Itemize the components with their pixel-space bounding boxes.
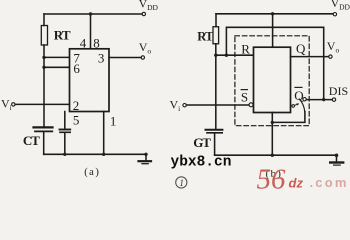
wire: rail to RT (b) xyxy=(215,14,217,27)
junction: discharge feedback tap xyxy=(225,54,228,57)
capacitor GT plates xyxy=(206,129,223,131)
wire: pin5 capacitor to ground bus xyxy=(64,133,66,154)
wire: RT down through node to capacitor GT xyxy=(215,44,217,129)
op-amp/timer IC U1 (555) body xyxy=(70,49,110,112)
discharge switch lever xyxy=(299,99,305,112)
ground symbol (a) xyxy=(144,153,147,156)
svg-text:VDD: VDD xyxy=(331,0,350,11)
svg-text:Q: Q xyxy=(296,41,306,56)
dashed IC boundary box xyxy=(235,36,309,126)
svg-text:2: 2 xyxy=(73,98,80,113)
wire: GT to ground bus xyxy=(214,134,216,156)
svg-text:ybx8.cn: ybx8.cn xyxy=(171,155,232,171)
svg-text:4: 4 xyxy=(80,35,87,50)
output terminal Vo (b) xyxy=(329,55,332,58)
svg-text:5: 5 xyxy=(73,112,80,127)
wire: top rail circuit a xyxy=(44,13,142,15)
discharge switch fixed contact circle xyxy=(303,98,306,101)
wire: pin 1 to ground bus xyxy=(103,112,105,155)
wire: node to R input of flip-flop xyxy=(216,54,254,56)
junction: VDD rail to flip-flop top xyxy=(271,12,274,15)
wire: VDD drop to pins 4,8 xyxy=(90,14,92,49)
wire: RT bottom down through node A to capacitor CT xyxy=(43,45,45,127)
wire: switch to DIS terminal xyxy=(306,99,332,101)
svg-text:.com: .com xyxy=(310,175,349,190)
inversion bubble on S input xyxy=(249,103,253,107)
svg-text:56: 56 xyxy=(257,164,287,194)
svg-text:1: 1 xyxy=(179,179,184,189)
wire: VDD drop to flip-flop xyxy=(272,14,274,47)
power terminal VDD (a) xyxy=(142,12,145,15)
junction: VDD rail to pin4/8 xyxy=(89,12,92,15)
svg-text:dz: dz xyxy=(289,176,304,191)
junction: node to R input xyxy=(214,54,217,57)
flip-flop U body xyxy=(254,47,291,112)
wire: VDD rail to resistor RT (a) xyxy=(43,14,45,26)
wire: discharge feedback path around top xyxy=(226,27,323,99)
watermark circled 1 xyxy=(176,177,187,188)
svg-text:6: 6 xyxy=(73,61,80,76)
junction: feedback joins DIS wire xyxy=(322,98,325,101)
junction: switch branch on FF ground line xyxy=(271,121,274,124)
wire: top rail circuit b xyxy=(216,13,333,15)
svg-text:S: S xyxy=(241,90,248,105)
junction: FF ground on ground bus xyxy=(271,154,274,157)
capacitor C on pin 5 plates xyxy=(60,129,71,131)
power terminal VDD (b) xyxy=(333,13,336,16)
wire: node A to pin 7 xyxy=(44,56,70,58)
junction: node A to pin 6 xyxy=(42,66,45,69)
terminal DIS xyxy=(332,98,335,101)
wire: Q output to Vo xyxy=(291,56,329,58)
svg-text:GT: GT xyxy=(193,135,211,150)
svg-text:3: 3 xyxy=(98,51,105,66)
svg-text:RT: RT xyxy=(197,30,214,44)
svg-text:RT: RT xyxy=(54,28,71,43)
resistor RT (b) xyxy=(213,27,219,44)
junction: pin1 on ground bus xyxy=(102,153,105,156)
svg-text:DIS: DIS xyxy=(329,84,348,98)
svg-text:Q: Q xyxy=(294,88,304,103)
wire: Vi to S bubble xyxy=(186,104,249,106)
wire: ground bus (b) xyxy=(215,154,337,156)
input terminal Vi (a) xyxy=(12,103,15,106)
wire: switch to ground branch xyxy=(272,112,305,123)
wire: Vi to pin 2 xyxy=(15,103,69,105)
resistor RT (a) xyxy=(41,26,47,46)
svg-text:R: R xyxy=(241,41,250,56)
wire: ground bus (a) xyxy=(44,153,146,155)
wire: node A to pin 6 xyxy=(44,66,70,68)
wire: pin 5 stub xyxy=(64,112,66,129)
wire: pin 3 to output terminal xyxy=(109,57,141,59)
wire: flip-flop ground xyxy=(271,113,273,156)
wire: CT to ground bus xyxy=(43,132,45,154)
input terminal Vi (b) xyxy=(183,104,186,107)
junction: node A to pin 7 xyxy=(42,56,45,59)
inversion bubble on Q-bar drive xyxy=(292,105,295,108)
output terminal Vo (a) xyxy=(141,56,144,59)
ground symbol (b) xyxy=(335,154,339,158)
svg-text:CT: CT xyxy=(23,133,40,148)
svg-text:8: 8 xyxy=(93,35,100,50)
capacitor CT plates xyxy=(34,126,53,128)
svg-text:1: 1 xyxy=(110,114,117,129)
discharge switch actuation arrow xyxy=(295,104,299,106)
junction: pin5 cap on ground bus xyxy=(63,153,66,156)
svg-text:(a): (a) xyxy=(84,167,100,178)
